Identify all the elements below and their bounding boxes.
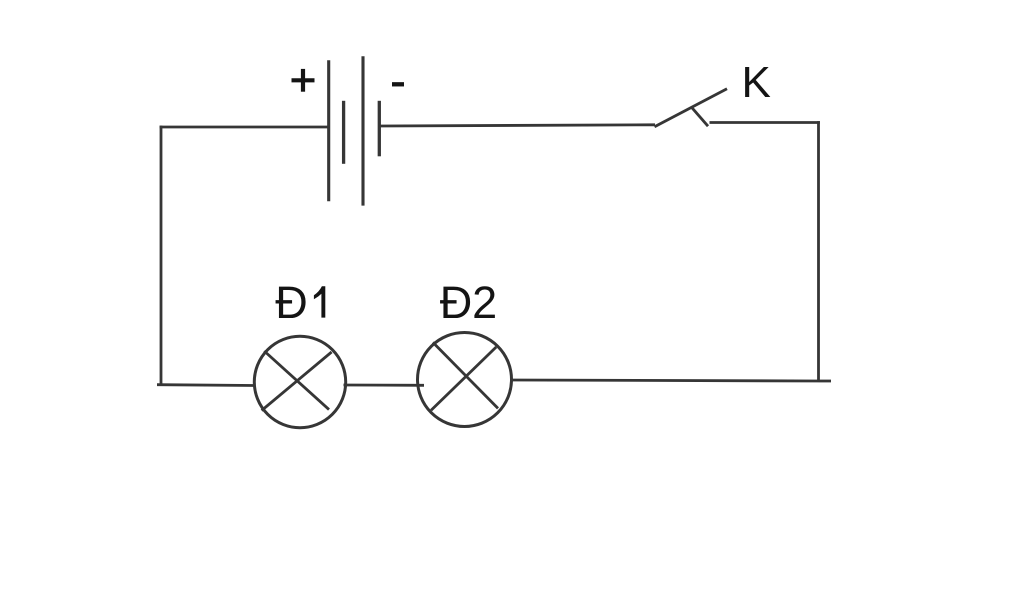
battery cell plate: long plate 2 — [361, 56, 364, 205]
lamp D2 cross stroke 2 — [431, 347, 496, 410]
wire: bottom-right nub past corner — [819, 380, 832, 383]
lamp D2 cross stroke 1 — [433, 342, 498, 408]
battery cell plate: short (-) plate 2 — [378, 101, 381, 157]
switch K right contact tick — [692, 108, 708, 126]
wire: left vertical side — [160, 126, 163, 386]
lamp D1 cross stroke 1 — [264, 351, 329, 410]
battery cell plate: long (+) plate 1 — [327, 60, 330, 201]
wire: middle horizontal (lamp D1 to lamp D2, overlapping into D2) — [344, 384, 425, 387]
wire: bottom-left horizontal (corner to lamp D1) — [157, 383, 256, 387]
svg-text:K: K — [742, 58, 771, 107]
wire: top-left horizontal (corner to battery + plate) — [160, 126, 329, 129]
wire: top-middle horizontal (battery - to switch left contact) — [379, 125, 655, 126]
label: + (battery positive terminal) — [292, 69, 315, 92]
lamp D1 circle — [254, 336, 345, 427]
wire: right vertical side — [817, 121, 820, 381]
svg-text:Đ2: Đ2 — [440, 277, 498, 328]
switch K blade (open) — [655, 89, 728, 127]
label: - (battery negative terminal) — [392, 82, 404, 86]
lamp D1 cross stroke 2 — [262, 352, 332, 411]
label: D1 (lamp 1) — [275, 277, 325, 328]
battery cell plate: short plate 1 — [342, 101, 345, 164]
wire: top-right horizontal (switch to right corner) — [710, 121, 820, 124]
lamp D2 circle — [418, 333, 512, 427]
svg-text:Đ: Đ — [275, 277, 308, 328]
wire: bottom-right horizontal (lamp D2 to right corner) — [511, 380, 819, 381]
